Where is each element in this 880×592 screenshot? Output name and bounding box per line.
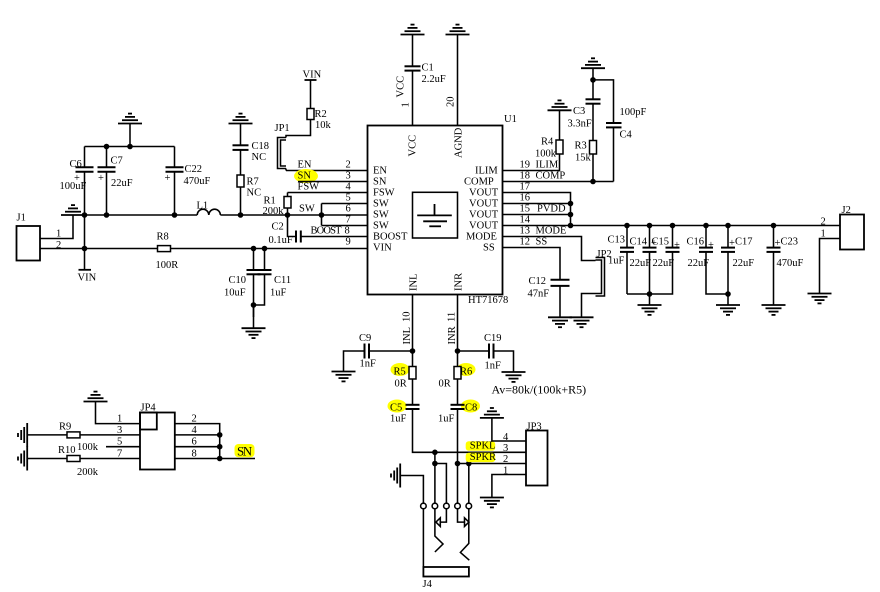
svg-text:U1: U1 — [504, 114, 517, 125]
svg-text:SN: SN — [373, 177, 387, 188]
svg-text:AGND: AGND — [454, 127, 465, 158]
ground above R4 — [548, 100, 572, 110]
svg-text:1uF: 1uF — [390, 414, 407, 425]
svg-text:0.1uF: 0.1uF — [269, 235, 293, 246]
wire JP3 pin1 — [492, 475, 526, 498]
wire branch to J4 circle2 — [434, 464, 436, 504]
wire JP4 pin7 — [80, 458, 140, 460]
svg-text:18: 18 — [520, 171, 531, 182]
svg-text:ILIM: ILIM — [536, 160, 559, 171]
wire EN pin2 — [286, 170, 368, 172]
wire J1 pin1 — [40, 215, 73, 239]
svg-text:22uF: 22uF — [733, 258, 755, 269]
svg-text:C18: C18 — [252, 141, 270, 152]
svg-text:3: 3 — [503, 443, 508, 454]
resistor R5 — [409, 367, 416, 380]
internal ground box — [413, 192, 458, 238]
svg-text:15k: 15k — [575, 153, 592, 164]
svg-text:SW: SW — [373, 221, 389, 232]
ground left of R9 — [18, 423, 27, 447]
wire INL to C9 — [369, 350, 413, 352]
resistor R4 — [556, 140, 563, 154]
wire R9 to ground — [27, 434, 67, 436]
ground below C23 — [762, 305, 786, 315]
svg-text:R4: R4 — [541, 137, 554, 148]
svg-text:6: 6 — [346, 204, 351, 215]
node SPKR left — [455, 461, 461, 467]
svg-text:SPKR: SPKR — [470, 452, 496, 463]
wire FSW pin4 — [288, 192, 368, 194]
svg-text:C6: C6 — [70, 159, 82, 170]
svg-text:JP3: JP3 — [527, 421, 542, 432]
wire pin14 output rail — [503, 225, 841, 227]
wire C18 to R7 — [240, 150, 242, 175]
node C14 bus — [647, 291, 653, 297]
svg-text:22uF: 22uF — [111, 178, 133, 189]
svg-text:VIN: VIN — [303, 70, 322, 81]
svg-text:L1: L1 — [197, 201, 209, 212]
capacitor C4 — [606, 123, 622, 127]
wire INR to C19 — [458, 350, 490, 352]
svg-text:200k: 200k — [77, 467, 99, 478]
wire INL pin10 — [412, 295, 414, 367]
capacitor C10 — [247, 249, 261, 318]
svg-text:JP4: JP4 — [141, 403, 157, 414]
wire R1 to rail — [287, 208, 289, 215]
node rail C14 — [647, 223, 653, 229]
svg-text:INR: INR — [454, 273, 465, 291]
power port VIN down — [84, 249, 86, 270]
node pin14 — [568, 223, 574, 229]
svg-text:C16: C16 — [687, 237, 705, 248]
svg-text:+: + — [165, 173, 171, 184]
svg-text:0R: 0R — [395, 379, 407, 390]
node rail C23 — [771, 223, 777, 229]
node rail C13 — [624, 223, 630, 229]
svg-text:19: 19 — [520, 160, 531, 171]
svg-text:100R: 100R — [156, 260, 179, 271]
svg-text:22uF: 22uF — [653, 258, 675, 269]
svg-text:100k: 100k — [77, 442, 99, 453]
svg-text:1uF: 1uF — [270, 288, 287, 299]
svg-text:INL: INL — [402, 327, 413, 345]
svg-text:SW: SW — [373, 199, 389, 210]
svg-text:JP1: JP1 — [275, 123, 290, 134]
svg-text:J1: J1 — [17, 213, 26, 224]
node SPKL tap — [432, 450, 438, 456]
connector J1 — [17, 226, 41, 261]
svg-text:VOUT: VOUT — [469, 188, 499, 199]
svg-text:FSW: FSW — [298, 182, 320, 193]
wire SPKR to JP3 — [458, 463, 527, 465]
jack J4 contact 4 — [455, 503, 461, 509]
ground left of R10 — [18, 447, 27, 471]
ground below C9 — [332, 372, 356, 382]
jumper JP1 — [278, 138, 287, 171]
resistor R2 — [307, 109, 314, 120]
wire contact2 lever — [435, 509, 443, 552]
wire C9 to ground — [344, 351, 365, 372]
wire ground to C18 — [240, 124, 242, 146]
svg-text:R7: R7 — [247, 177, 259, 188]
node dots on VIN rail — [82, 212, 88, 218]
node pin4 join — [217, 432, 223, 438]
svg-text:C3: C3 — [573, 106, 585, 117]
node SW vertical rail — [319, 212, 325, 218]
resistor R3 — [590, 141, 597, 155]
svg-text:5: 5 — [117, 437, 122, 448]
svg-text:C23: C23 — [781, 237, 799, 248]
ground below C17 — [716, 305, 740, 315]
svg-text:1nF: 1nF — [485, 361, 502, 372]
wire R6 to C8 — [457, 379, 459, 405]
svg-text:R2: R2 — [315, 109, 327, 120]
wire R3 to COMP — [592, 154, 594, 182]
svg-text:C10: C10 — [229, 275, 247, 286]
wire VCC pin1 vertical — [412, 71, 414, 126]
svg-text:BOOST: BOOST — [311, 226, 343, 237]
capacitor C16 — [699, 226, 728, 295]
C10 dot on VIN wire — [251, 246, 257, 252]
svg-text:10k: 10k — [315, 120, 332, 131]
svg-text:INL: INL — [409, 274, 420, 292]
ground below JP3 pin1 — [480, 498, 504, 508]
svg-text:R6: R6 — [460, 367, 472, 378]
capacitor C13 — [620, 226, 634, 295]
svg-text:C8: C8 — [465, 403, 477, 414]
internal ground symbol — [417, 204, 452, 226]
node dots on rail — [104, 144, 110, 150]
svg-text:EN: EN — [298, 160, 312, 171]
svg-text:C2: C2 — [272, 222, 284, 233]
wire R3 to C3 — [592, 104, 594, 141]
capacitor C5 — [406, 405, 420, 409]
svg-text:11: 11 — [447, 312, 458, 322]
svg-text:0R: 0R — [439, 379, 451, 390]
wire R8 to IC pin9 — [171, 248, 368, 250]
svg-text:VCC: VCC — [408, 135, 419, 157]
svg-text:SS: SS — [536, 237, 548, 248]
svg-text:SW: SW — [299, 204, 315, 215]
svg-text:VOUT: VOUT — [469, 221, 499, 232]
node INR — [455, 348, 461, 354]
svg-text:SN: SN — [298, 171, 312, 182]
jack J4 contact 5 — [466, 503, 472, 509]
node INL — [410, 348, 416, 354]
svg-text:10uF: 10uF — [224, 288, 246, 299]
wire C1 to ground — [412, 35, 414, 67]
node SPKR tap — [466, 461, 472, 467]
svg-text:BOOST: BOOST — [373, 232, 408, 243]
ground below C12 — [548, 317, 572, 327]
ground below C19 — [502, 372, 526, 382]
svg-text:SS: SS — [483, 243, 495, 254]
svg-text:200k: 200k — [263, 206, 285, 217]
SPKL highlight — [466, 441, 496, 450]
wire branch bend to J4 circle3 — [435, 464, 447, 504]
svg-text:1uF: 1uF — [438, 414, 455, 425]
svg-text:9: 9 — [346, 237, 351, 248]
svg-text:R9: R9 — [59, 422, 71, 433]
svg-text:7: 7 — [346, 215, 351, 226]
inductor L1 — [197, 209, 220, 215]
svg-text:J2: J2 — [842, 205, 851, 216]
wire C19 to ground — [494, 351, 514, 372]
wire C3 to ground — [592, 68, 594, 99]
svg-text:22uF: 22uF — [630, 258, 652, 269]
svg-text:EN: EN — [373, 166, 387, 177]
wire pin17 — [503, 193, 571, 226]
R5 highlight — [391, 363, 410, 376]
svg-text:2: 2 — [56, 240, 61, 251]
capacitor C12 — [551, 280, 570, 286]
wire contact5 lever — [460, 509, 469, 560]
VIN bar — [79, 269, 92, 271]
svg-text:10: 10 — [402, 312, 413, 323]
wire VIN to R2 — [310, 80, 312, 109]
svg-text:SPKL: SPKL — [470, 441, 496, 452]
capacitor C8 — [451, 405, 465, 409]
wire top to C4 — [593, 80, 614, 123]
capacitor C9 — [365, 344, 370, 359]
wire R5 to C5 — [412, 379, 414, 405]
wire to SN label — [220, 458, 255, 460]
wire JP4 pin1 to ground — [96, 402, 141, 424]
wire JP4 pin3 — [80, 434, 140, 436]
jack J4 contact 1 — [421, 503, 427, 509]
ground at J1 pin1 — [61, 205, 85, 215]
wire VIN rail to L1 — [85, 214, 198, 216]
resistor R10 — [67, 456, 80, 462]
wire JP4 pin6 — [175, 446, 220, 448]
wire AGND pin20 vertical — [457, 35, 459, 126]
svg-text:MODE: MODE — [536, 226, 567, 237]
svg-text:13: 13 — [520, 226, 531, 237]
svg-text:3.3nF: 3.3nF — [568, 119, 592, 130]
wire R10 to ground — [27, 458, 67, 460]
jumper JP2 — [596, 258, 605, 297]
svg-text:5: 5 — [346, 193, 351, 204]
wire SPKR down to J4 circle4 — [457, 464, 459, 504]
jack J4 contact 2 — [432, 503, 438, 509]
svg-text:VCC: VCC — [396, 76, 407, 98]
capacitor C1 — [405, 66, 421, 70]
svg-text:1: 1 — [401, 102, 412, 107]
JP4 pin1 square — [140, 413, 157, 430]
ground above C3 — [581, 58, 605, 68]
ground left of J4 — [391, 464, 400, 488]
svg-text:NC: NC — [252, 152, 267, 163]
svg-text:15: 15 — [520, 204, 531, 215]
svg-text:47nF: 47nF — [528, 289, 550, 300]
wire SPKL tap down — [434, 452, 436, 463]
wire JP4 pin8 — [175, 458, 220, 460]
svg-text:C12: C12 — [529, 276, 547, 287]
wire L1 to SW — [220, 214, 367, 216]
wire SW pins 5-7 vertical — [321, 204, 323, 226]
ground above JP3 pin4 — [480, 408, 504, 418]
capacitor C23 — [767, 226, 781, 306]
svg-text:HT71678: HT71678 — [468, 295, 508, 306]
wire C4 to COMP — [613, 127, 615, 181]
connector J4 body — [423, 567, 469, 577]
node R3 COMP — [590, 179, 596, 185]
jack J4 contact 3 — [444, 503, 450, 509]
capacitor C15 — [627, 226, 680, 295]
svg-text:C15: C15 — [652, 237, 670, 248]
node VIN junction — [82, 246, 88, 252]
wire FSW to R1 — [287, 193, 289, 197]
svg-text:COMP: COMP — [464, 177, 494, 188]
node R7 rail — [238, 212, 244, 218]
wire contact1 to J4 body — [422, 509, 424, 567]
node C3 C4 top — [590, 77, 596, 83]
svg-text:FSW: FSW — [373, 188, 395, 199]
svg-text:C22: C22 — [185, 164, 203, 175]
svg-text:470uF: 470uF — [777, 258, 804, 269]
svg-text:VIN: VIN — [78, 273, 97, 284]
node pin16 — [568, 201, 574, 207]
svg-text:R1: R1 — [264, 196, 276, 207]
svg-text:470uF: 470uF — [184, 176, 211, 187]
wire ILIM pin19 — [503, 154, 560, 171]
svg-text:2: 2 — [503, 454, 508, 465]
resistor R8 — [158, 246, 171, 252]
wire SPKR tap down to J4 circle5 — [468, 464, 470, 504]
node SPKL branch — [432, 461, 438, 467]
wire J2 pin1 — [820, 239, 841, 294]
capacitor C14 — [643, 226, 657, 306]
ground above C18 — [229, 114, 253, 124]
svg-text:+: + — [708, 240, 714, 251]
ground below C14 — [638, 305, 662, 315]
svg-text:R3: R3 — [575, 141, 587, 152]
ground rail top left — [85, 146, 175, 148]
svg-text:C5: C5 — [390, 403, 402, 414]
connector JP3 — [526, 431, 548, 486]
svg-text:8: 8 — [345, 226, 350, 237]
resistor R9 — [67, 432, 80, 438]
wire C5 down to SPKL — [413, 409, 527, 452]
SN highlight bottom — [235, 444, 255, 457]
svg-text:14: 14 — [520, 215, 531, 226]
wire J1 pin2 to R8 — [40, 248, 158, 250]
capacitor C17 — [721, 226, 735, 306]
wire R7 to rail — [240, 187, 242, 215]
connector JP4 — [140, 413, 175, 470]
wire C8 down to SPKR — [457, 409, 459, 464]
wire contact3 arrow lead — [440, 509, 446, 522]
svg-text:12: 12 — [520, 237, 531, 248]
wire JP4 pin2 — [175, 424, 220, 459]
ground below J2 pin1 — [808, 294, 832, 304]
svg-text:C9: C9 — [359, 333, 371, 344]
R6 highlight — [457, 363, 476, 376]
node C17 bus — [725, 291, 731, 297]
svg-text:100k: 100k — [535, 149, 557, 160]
wire R4 to ground — [559, 110, 561, 140]
svg-text:INR: INR — [447, 326, 458, 344]
VIN bar top — [305, 79, 317, 81]
C11 dot on VIN wire — [262, 246, 268, 252]
svg-text:22uF: 22uF — [688, 258, 710, 269]
svg-text:17: 17 — [520, 182, 531, 193]
wire INR pin11 — [457, 295, 459, 367]
svg-text:2: 2 — [346, 160, 351, 171]
svg-text:VOUT: VOUT — [469, 199, 499, 210]
node rail C17 — [725, 223, 731, 229]
svg-text:C17: C17 — [735, 237, 753, 248]
ground above AGND — [446, 25, 470, 35]
capacitor C22 — [166, 147, 184, 216]
wire MODE pin13 — [503, 237, 596, 261]
svg-text:+: + — [98, 173, 104, 184]
ground above rail — [118, 114, 142, 124]
ground above C1 — [401, 25, 425, 35]
svg-text:ILIM: ILIM — [475, 166, 498, 177]
svg-text:VIN: VIN — [373, 243, 392, 254]
svg-text:VOUT: VOUT — [469, 210, 499, 221]
svg-text:SN: SN — [237, 444, 253, 459]
ground below C10 — [242, 328, 266, 338]
capacitor C11 — [254, 249, 272, 306]
wire pin15 — [503, 214, 571, 216]
wire C2 to BOOST pin8 — [301, 236, 368, 238]
svg-text:4: 4 — [346, 182, 352, 193]
wire SN pin3 — [298, 181, 368, 183]
ground below JP2 — [570, 317, 594, 327]
wire SS pin12 — [503, 248, 561, 280]
svg-text:J4: J4 — [423, 579, 433, 590]
resistor R1 — [284, 197, 291, 209]
node R1 rail — [285, 212, 291, 218]
svg-text:R10: R10 — [58, 445, 76, 456]
arrowhead right — [465, 518, 469, 527]
svg-text:2: 2 — [821, 217, 826, 228]
wire C12 to ground — [559, 286, 561, 317]
svg-text:C19: C19 — [484, 333, 502, 344]
svg-text:C4: C4 — [620, 130, 633, 141]
svg-text:R8: R8 — [157, 232, 169, 243]
svg-text:16: 16 — [520, 193, 531, 204]
svg-text:C11: C11 — [274, 275, 291, 286]
node pin8 join — [217, 456, 223, 462]
svg-text:6: 6 — [192, 437, 197, 448]
svg-text:100pF: 100pF — [620, 107, 647, 118]
wire pin5 — [322, 203, 368, 205]
svg-text:2.2uF: 2.2uF — [422, 74, 446, 85]
ground above JP4 pin1 — [84, 392, 108, 402]
capacitor C7 — [98, 147, 116, 216]
svg-text:C14: C14 — [630, 237, 648, 248]
svg-text:C7: C7 — [111, 156, 123, 167]
capacitor C6 — [76, 147, 94, 249]
svg-text:MODE: MODE — [466, 232, 497, 243]
wire JP3 pin4 — [492, 418, 526, 441]
wire contact4 arrow lead — [458, 509, 465, 522]
SN highlight — [294, 169, 318, 183]
SPKR highlight — [466, 453, 496, 462]
node rail C15 — [670, 223, 676, 229]
svg-text:NC: NC — [247, 188, 262, 199]
capacitor C18 — [233, 145, 249, 150]
node pin6 join — [217, 444, 223, 450]
node pin15 — [568, 212, 574, 218]
op-amp U1 HT71678 IC body — [368, 126, 503, 295]
connector J2 — [840, 215, 864, 250]
capacitor C3 — [586, 99, 601, 103]
svg-text:1uF: 1uF — [608, 256, 625, 267]
